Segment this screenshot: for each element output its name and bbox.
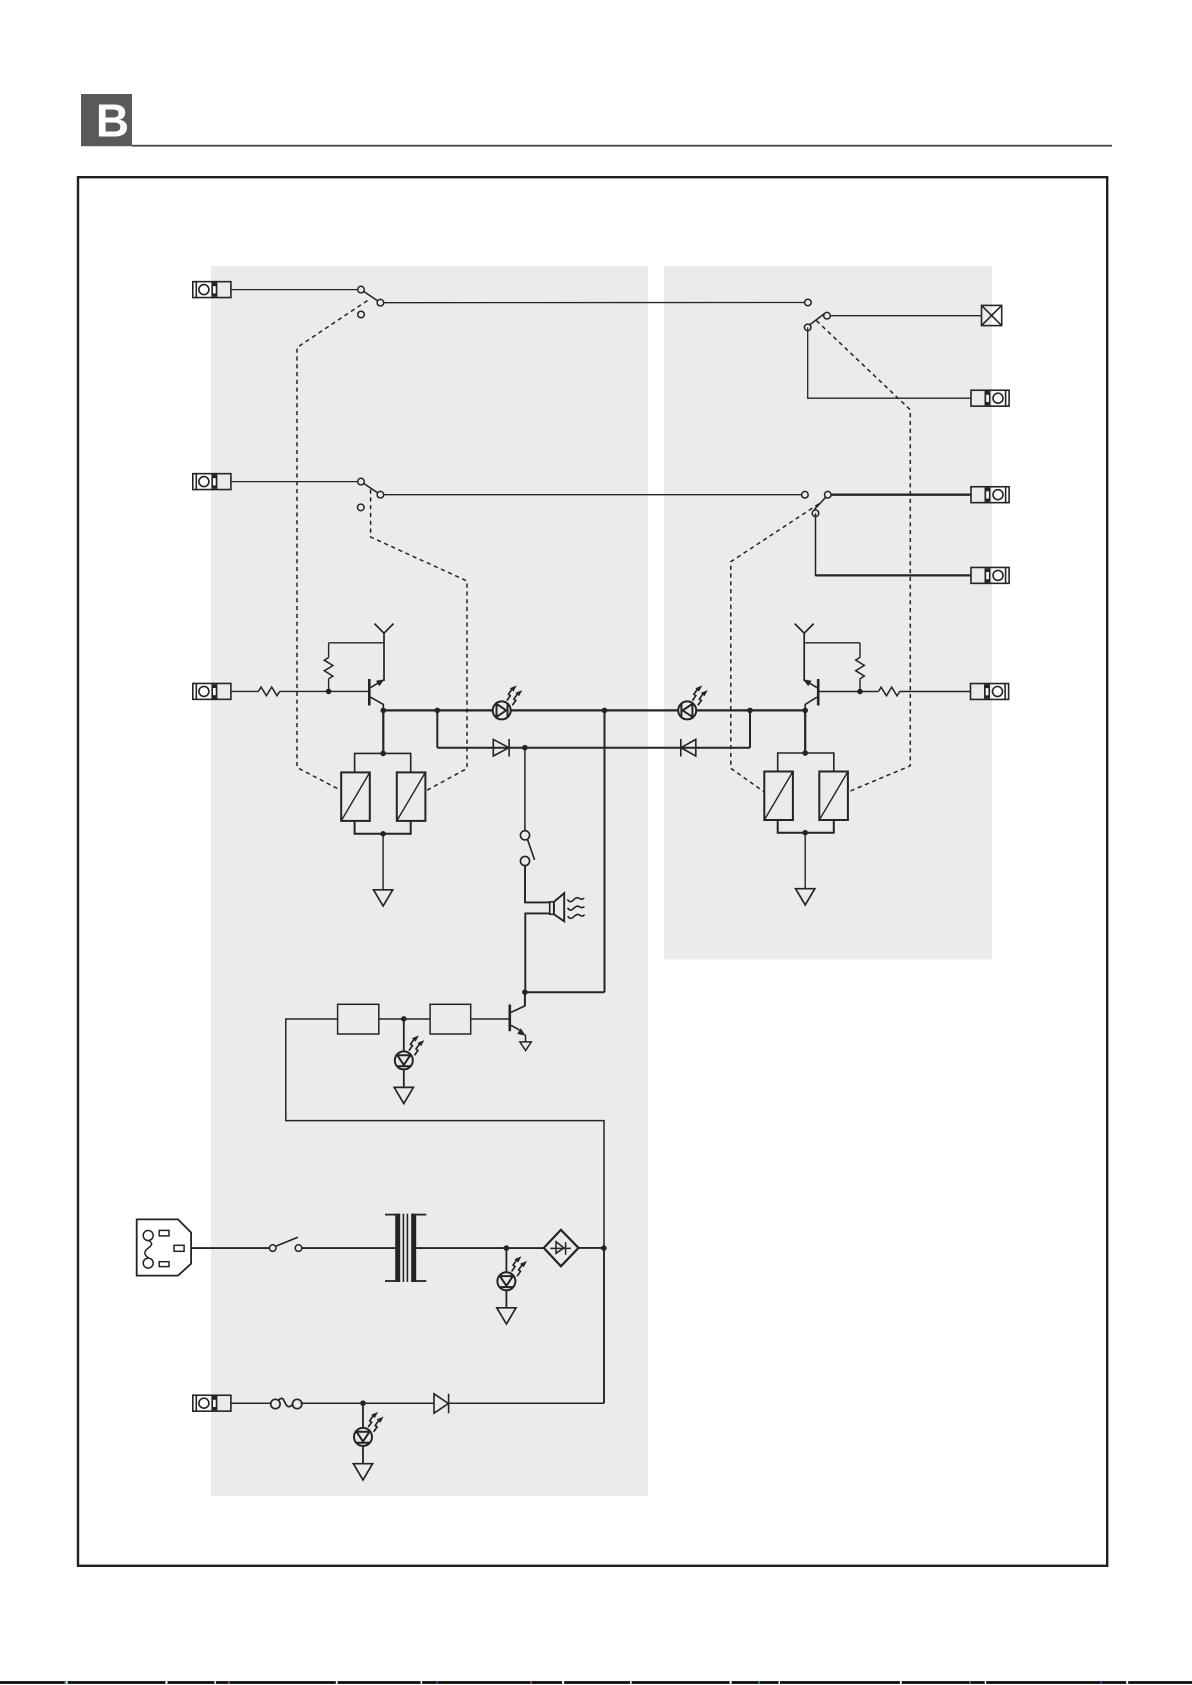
- wire D3 to psu node: [449, 1402, 604, 1404]
- diode D2: [681, 739, 696, 757]
- thermal switch feed: [524, 748, 526, 831]
- wire bus down at x604: [604, 710, 606, 992]
- LED V3 wire: [403, 1019, 405, 1052]
- LED V5 wire: [362, 1403, 364, 1428]
- diode D3: [434, 1394, 449, 1413]
- relay K1 top bracket: [355, 753, 411, 772]
- switch S1 contact B: [377, 299, 384, 306]
- connector J1 (left input row 1): [193, 282, 231, 298]
- bridge rectifier BR1: [544, 1230, 579, 1267]
- wire fuse to diode D3: [301, 1402, 434, 1404]
- transistor Q3: [803, 679, 818, 710]
- wire S5 to connector J6: [831, 494, 971, 496]
- wire Q3 base to resistor R3: [819, 691, 878, 693]
- block box B: [430, 1004, 471, 1034]
- wire J2 to switch S2: [231, 481, 361, 483]
- heater horn: [554, 893, 564, 921]
- switch S5 contact B: [825, 491, 832, 498]
- wire S1 to right panel: [384, 302, 805, 304]
- wire psu down to low voltage row: [603, 1248, 605, 1403]
- wire thick to J7: [816, 574, 972, 576]
- switch S1 arm: [364, 291, 378, 301]
- wire K2 to ground: [804, 833, 806, 889]
- LED V3 (power amp): [395, 1035, 425, 1069]
- fuse F1: [271, 1398, 302, 1408]
- LED V5 (dc power): [354, 1412, 384, 1446]
- relay K2 bottom bracket: [778, 820, 834, 833]
- mechanical link dashed S5 to relay K2: [731, 504, 819, 792]
- switch S4 contact C: [804, 324, 811, 331]
- connector J2 (left input row 2): [193, 474, 231, 490]
- switch S1 contact C: [358, 311, 365, 318]
- relay K2 feed wire: [804, 710, 806, 753]
- connector J5 (right output row 1): [971, 390, 1009, 406]
- relay K1 coil a: [341, 772, 370, 821]
- outer frame: [78, 177, 1107, 1566]
- block box A: [338, 1004, 379, 1034]
- resistor R4 (vertical right): [856, 643, 865, 692]
- wire J4 to fuse: [231, 1402, 272, 1404]
- ground K2: [796, 889, 815, 905]
- switch S2 contact C: [358, 504, 365, 511]
- heat waves: [567, 898, 584, 919]
- ground K1: [374, 890, 393, 906]
- right gray panel: [664, 266, 992, 960]
- mechanical link dashed S4 to relay K2: [817, 321, 911, 792]
- heater throat: [550, 902, 554, 914]
- wire J1 to switch S1: [231, 289, 361, 291]
- relay K1 feed wire: [382, 710, 384, 753]
- transistor Q1: [369, 679, 384, 710]
- resistor R1: [258, 687, 279, 696]
- main bus wire y710: [383, 709, 805, 711]
- wire S5 contact C to connector J7: [816, 513, 972, 575]
- page bottom edge: [0, 1681, 1192, 1683]
- wire V4 to ground: [505, 1290, 507, 1308]
- mains switch S3: [269, 1237, 301, 1251]
- antenna symbol right: [795, 624, 814, 681]
- B section label box: [81, 94, 132, 147]
- ground Q2 emitter: [520, 1042, 531, 1051]
- relay K2 coil b: [819, 772, 848, 821]
- wire S2 to right panel: [384, 494, 802, 496]
- connector J7 (right output row 3): [971, 567, 1009, 583]
- ground V5: [353, 1464, 372, 1480]
- header rule: [132, 145, 1112, 147]
- LED V1 (limiter left): [493, 685, 523, 719]
- wire K1 to ground: [382, 834, 384, 890]
- wire to heater top: [525, 866, 550, 903]
- junction dots: [326, 689, 863, 1406]
- left gray panel: [211, 266, 648, 1496]
- diode D1: [493, 739, 509, 757]
- switch S4 contact B: [824, 312, 831, 319]
- relay K2 coil a: [764, 772, 793, 821]
- switch S5 arm: [814, 498, 825, 510]
- crossed box X1: [982, 305, 1002, 325]
- thermal switch contact bottom: [520, 856, 529, 865]
- wire bridge to bus node: [579, 1247, 605, 1249]
- relay K1 bottom bracket: [355, 821, 411, 834]
- LED V4 (power): [497, 1256, 527, 1290]
- transistor Q2: [510, 992, 526, 1042]
- connector J6 (right output row 2): [971, 487, 1009, 503]
- switch S4 pole A (right row 1): [805, 299, 812, 306]
- wire transformer to bridge: [416, 1247, 544, 1249]
- wire S4 contact C to connector J5: [808, 327, 971, 398]
- switch S2 pole A: [358, 478, 365, 485]
- diode row wire: [437, 747, 750, 749]
- resistor R2 (vertical): [324, 643, 333, 692]
- switch S2 contact B: [377, 491, 384, 498]
- LED V4 wire: [505, 1248, 507, 1273]
- wire x604 to q2 collector node: [525, 991, 605, 993]
- transformer T1: [385, 1214, 426, 1282]
- switch S5 contact C: [812, 510, 819, 517]
- wire heater bottom down: [525, 913, 549, 992]
- LED V2 (limiter right): [678, 685, 708, 719]
- wire R2 top to antenna stem: [329, 642, 384, 644]
- thermal switch arm: [527, 839, 534, 860]
- thermal switch contact top: [520, 831, 529, 840]
- wire between boxes: [379, 1018, 430, 1020]
- switch S5 pole A (right row 2): [802, 491, 809, 498]
- connector J3 (left input row 3): [193, 683, 231, 699]
- ground V4: [497, 1308, 516, 1324]
- connector J8 (right row 4): [971, 684, 1009, 700]
- wire switch to transformer: [302, 1247, 395, 1249]
- wire antenna to resistor R4 top: [804, 642, 860, 644]
- resistor R3: [878, 687, 899, 696]
- mechanical link dashed S2 to relay K1: [371, 490, 467, 792]
- mains plug P1: [137, 1219, 191, 1275]
- mechanical link dashed S1 to relay K1: [297, 301, 368, 791]
- wire diode row to bus right: [749, 710, 751, 747]
- wire R3 to connector J8: [900, 691, 971, 693]
- wire boxA left loop to psu: [286, 1019, 604, 1248]
- ground V3: [394, 1087, 413, 1103]
- switch S4 arm: [810, 314, 825, 325]
- wire bus to diode row left: [436, 710, 438, 747]
- wire boxB to Q2 base: [471, 1018, 509, 1020]
- wire V3 to ground: [403, 1069, 405, 1087]
- switch S1 pole A: [358, 286, 365, 293]
- wire R1 to transistor Q1 base: [280, 690, 369, 692]
- wire J3 to resistor R1: [231, 690, 259, 692]
- wire V5 to ground: [362, 1446, 364, 1464]
- switch S2 arm: [364, 483, 378, 493]
- relay K2 top bracket: [778, 753, 834, 772]
- antenna symbol left: [375, 624, 394, 681]
- svg-text:B: B: [96, 95, 129, 147]
- wire S4 to monitor box: [830, 315, 981, 317]
- wire plug to mains switch: [191, 1247, 269, 1249]
- relay K1 coil b: [397, 772, 426, 821]
- connector J4 (low voltage dc input): [193, 1395, 231, 1411]
